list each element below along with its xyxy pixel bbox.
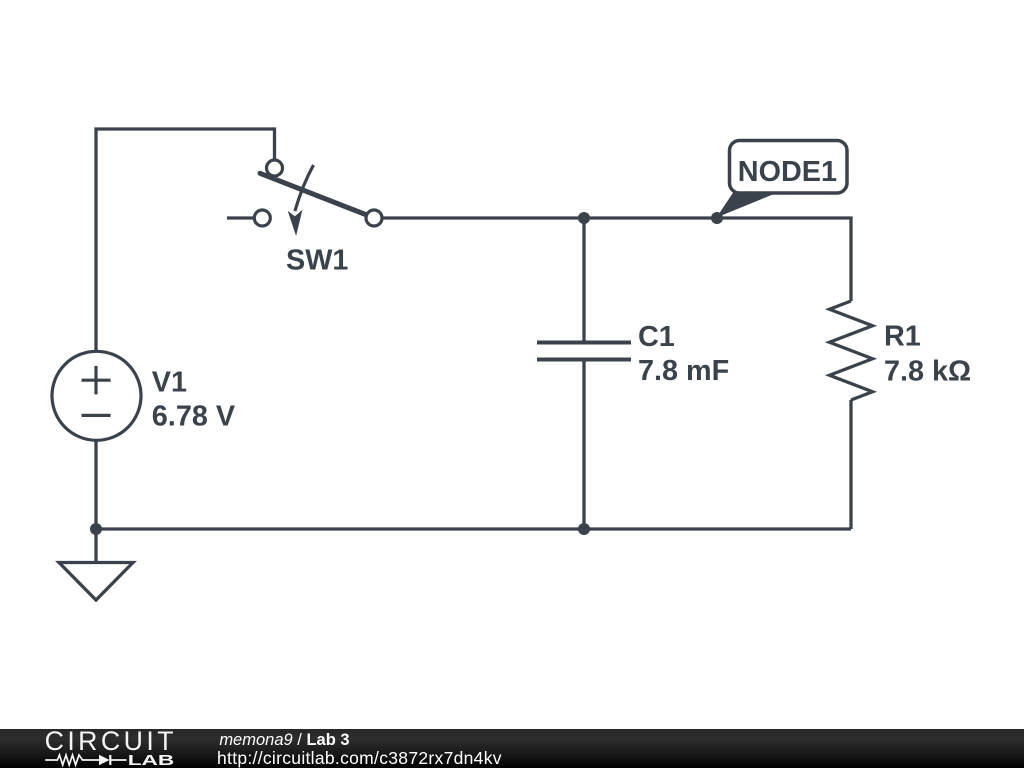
wire V1 top to SW1 top terminal (96, 129, 275, 352)
switch SW1 (254, 160, 382, 236)
wire R1 bottom to bottom rail (849, 400, 852, 529)
wire SW1 pole to R1 top (node rail) (382, 218, 851, 301)
svg-text:7.8 kΩ: 7.8 kΩ (884, 356, 971, 388)
CircuitLab logo (0, 729, 190, 768)
wire V1 bottom to ground node (94, 440, 97, 529)
svg-text:V1: V1 (152, 367, 187, 399)
voltage source V1 (52, 351, 141, 440)
svg-text:NODE1: NODE1 (738, 156, 837, 188)
svg-text:SW1: SW1 (286, 245, 348, 277)
wire node rail to C1 top plate (582, 218, 585, 341)
svg-text:C1: C1 (638, 321, 675, 353)
junction dot ground node (90, 523, 102, 535)
junction dot C1 bottom (578, 523, 590, 535)
svg-text:6.78 V: 6.78 V (152, 401, 236, 433)
wire C1 bottom plate to bottom rail (582, 362, 585, 530)
node NODE1 callout tail (717, 192, 778, 218)
node NODE1 callout box (730, 141, 848, 194)
wire SW1 left throw stub (227, 216, 254, 219)
footer bar (0, 729, 1024, 768)
junction dot at C1 top (578, 212, 590, 224)
capacitor C1 plates (537, 343, 631, 360)
svg-text:7.8 mF: 7.8 mF (638, 355, 729, 387)
footer text (216, 0, 218, 1)
wire ground node to ground symbol (94, 529, 97, 562)
junction dot NODE1 (711, 212, 723, 224)
ground (59, 563, 133, 601)
svg-text:LAB: LAB (128, 752, 175, 768)
resistor R1 (830, 301, 873, 400)
wire bottom rail (96, 527, 851, 530)
svg-text:R1: R1 (884, 321, 921, 353)
